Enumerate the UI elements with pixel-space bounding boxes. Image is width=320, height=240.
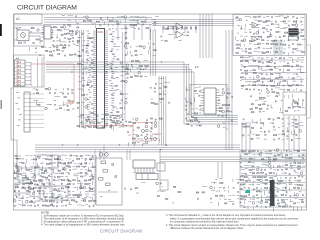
wire W328 xyxy=(214,182,216,185)
resistor R341 xyxy=(45,177,48,178)
value label xyxy=(219,177,222,180)
diode D136 xyxy=(92,174,94,176)
crt socket mark (cyan) xyxy=(246,190,250,193)
wire W129 xyxy=(262,42,265,44)
wire W292 xyxy=(89,197,92,199)
capacitor C282 xyxy=(88,187,90,189)
capacitor C66 xyxy=(190,27,192,30)
wire W118 xyxy=(270,32,272,37)
wire W84 xyxy=(164,81,169,83)
resistor R327 xyxy=(76,166,79,167)
value label xyxy=(301,44,303,47)
U201 right pin 48 xyxy=(105,125,109,127)
capacitor C172 xyxy=(190,125,192,127)
A6 vertical bundle xyxy=(273,40,275,55)
wire W219 xyxy=(113,126,115,130)
value label xyxy=(273,191,275,194)
resistor R359 xyxy=(38,188,41,189)
capacitor C145 xyxy=(125,37,127,39)
transistor Q130 xyxy=(257,75,260,78)
capacitor C142 xyxy=(82,126,84,128)
wire W311 xyxy=(26,183,30,185)
value label xyxy=(155,133,158,136)
wire W209 xyxy=(137,141,140,143)
value label xyxy=(72,108,75,111)
resistor R346 xyxy=(61,180,64,181)
U201 right pin 17 xyxy=(105,62,109,64)
wire W371 xyxy=(282,157,288,159)
capacitor C168 xyxy=(185,105,187,107)
capacitor C339 xyxy=(240,166,242,168)
resistor R326 xyxy=(66,165,69,166)
transistor Q107 xyxy=(143,46,146,49)
J4 row 2 xyxy=(15,67,26,69)
resistor R216 xyxy=(266,43,268,44)
capacitor C360 xyxy=(252,188,254,190)
resistor R135 xyxy=(154,50,157,51)
value label xyxy=(249,23,251,26)
IC column bus wire 3 xyxy=(83,30,85,128)
wire W91 xyxy=(189,98,191,103)
junction node xyxy=(134,144,135,145)
resistor R456 xyxy=(264,177,266,178)
pin net label xyxy=(110,67,113,70)
value label xyxy=(218,102,221,105)
resistor R246 xyxy=(245,73,248,74)
wire W268 xyxy=(80,181,82,185)
resistor R406 xyxy=(268,118,270,119)
junction node xyxy=(82,64,83,65)
resistor R271 xyxy=(251,104,253,105)
capacitor C276 xyxy=(36,184,38,186)
value label xyxy=(38,173,40,176)
resistor R244 xyxy=(270,69,273,70)
capacitor C183 xyxy=(287,16,289,18)
wire W48 xyxy=(91,23,96,25)
transistor Q163 xyxy=(300,172,303,175)
resistor R601 xyxy=(101,161,106,164)
value label xyxy=(136,192,139,195)
capacitor C105 xyxy=(72,37,74,39)
capacitor C338 xyxy=(301,162,303,164)
diode D157 xyxy=(67,179,69,181)
resistor R462 xyxy=(270,181,273,182)
wire W150 xyxy=(258,68,263,70)
resistor R353 xyxy=(26,183,29,184)
wire W57 xyxy=(78,81,81,83)
value label xyxy=(43,186,46,189)
resistor R217 xyxy=(271,44,274,45)
diode D118 xyxy=(280,36,282,38)
wire W361 xyxy=(280,151,282,156)
wire W170 xyxy=(274,80,276,83)
capacitor C234 xyxy=(292,107,294,109)
value label xyxy=(262,47,265,50)
resistor R461 xyxy=(265,180,268,181)
value label xyxy=(278,126,280,129)
value label xyxy=(293,27,295,30)
U301 left pin 2 xyxy=(201,92,205,94)
wire W80 xyxy=(130,68,132,71)
value label xyxy=(121,41,123,44)
wire W323 xyxy=(161,190,165,192)
transistor Q142 xyxy=(91,157,94,160)
wire W25 xyxy=(125,20,127,23)
value label xyxy=(285,180,287,183)
wire W258 xyxy=(74,173,78,175)
resistor R291 xyxy=(129,122,132,123)
vertical wire mid xyxy=(126,150,128,160)
U201 left pin 23 xyxy=(93,74,97,76)
wire W367 xyxy=(289,154,292,156)
capacitor C208 xyxy=(262,62,264,64)
capacitor C243 xyxy=(150,122,152,124)
J4 diode D6 (red) xyxy=(17,80,20,82)
wire W224 xyxy=(61,154,65,156)
resistor R440 xyxy=(278,166,281,167)
junction node xyxy=(132,66,133,67)
resistor R451 xyxy=(241,176,244,177)
junction node xyxy=(106,71,107,72)
value label xyxy=(34,154,36,157)
wire W55 xyxy=(86,72,88,75)
value label xyxy=(91,107,94,110)
resistor R428 xyxy=(245,154,248,155)
value label xyxy=(295,171,297,174)
wire W88 xyxy=(186,89,190,91)
wire W415 xyxy=(249,198,255,200)
wire W71 xyxy=(116,89,119,91)
capacitor C119 xyxy=(141,24,143,26)
wire W277 xyxy=(77,187,79,191)
wire W74 xyxy=(112,106,116,108)
wire W177 xyxy=(295,88,297,91)
capacitor C177 xyxy=(230,111,232,113)
junction node xyxy=(122,66,123,67)
pin net label xyxy=(111,109,114,112)
value label xyxy=(118,117,120,120)
capacitor C136 xyxy=(90,59,92,61)
J4 row 7 xyxy=(15,85,26,87)
diode D130 xyxy=(155,119,157,121)
value label xyxy=(237,24,240,27)
resistor R306 xyxy=(93,127,96,128)
capacitor C255 xyxy=(92,122,94,124)
J4 row 1 xyxy=(15,63,26,65)
wire W169 xyxy=(267,80,273,82)
diode D121 xyxy=(274,62,276,64)
U301 right pin 7 xyxy=(216,105,220,107)
resistor R430 xyxy=(278,154,281,155)
diode D113 xyxy=(140,68,142,70)
pin net label xyxy=(113,55,116,58)
value label xyxy=(277,187,280,190)
vertical wire bl xyxy=(51,155,53,205)
diode D116 xyxy=(199,121,201,123)
routing bus L-1 xyxy=(46,62,238,124)
pin net label xyxy=(113,45,116,48)
capacitor C336 xyxy=(239,162,241,164)
capacitor C295 xyxy=(84,197,86,199)
transistor Q113 xyxy=(124,45,127,48)
capacitor C197 xyxy=(287,40,289,42)
wire W162 xyxy=(244,77,246,80)
U201 right pin 9 xyxy=(105,46,109,48)
resistor R173 xyxy=(160,99,163,100)
value label xyxy=(286,138,288,141)
resistor R242 xyxy=(245,70,248,71)
value label xyxy=(250,16,252,19)
U201 left pin 41 xyxy=(93,111,97,113)
value label xyxy=(40,162,43,165)
resistor R422 xyxy=(202,192,205,193)
lower bus wire 1 xyxy=(35,144,240,146)
resistor R116 xyxy=(57,50,60,51)
resistor R155 xyxy=(121,81,124,82)
U201 left pin 1 xyxy=(93,30,97,32)
value label xyxy=(72,165,75,168)
resistor R203 xyxy=(285,32,288,33)
diode D171 xyxy=(286,150,288,152)
resistor R395 xyxy=(90,189,93,190)
capacitor C283 xyxy=(18,190,20,192)
value label xyxy=(90,175,92,178)
bus drop wire 1 xyxy=(117,25,119,41)
capacitor C247 xyxy=(146,134,148,136)
resistor R385 xyxy=(17,171,19,172)
wire W135 xyxy=(269,52,271,54)
IC right vertical wire 1 xyxy=(122,32,124,120)
wire W425 xyxy=(252,207,254,210)
U201 right pin 18 xyxy=(105,64,109,66)
transistor Q131 xyxy=(277,83,280,86)
wire W220 xyxy=(26,155,29,157)
top bus wire 3 xyxy=(44,21,152,23)
pin net label xyxy=(89,64,91,67)
U201 left pin 39 xyxy=(93,107,97,109)
wire W395 xyxy=(280,177,282,179)
bm link wire 1 xyxy=(217,162,219,178)
pin net label xyxy=(110,62,113,65)
resistor R103 xyxy=(77,27,79,28)
bus drop wire 3 xyxy=(133,25,135,41)
pin net label xyxy=(113,106,116,109)
resistor R211 xyxy=(262,40,264,41)
U201 left pin 46 xyxy=(93,121,97,123)
J4 row 5 xyxy=(15,78,26,80)
resistor R183 xyxy=(199,125,201,126)
value label xyxy=(49,190,51,193)
wire W188 xyxy=(302,102,304,106)
diode D168 xyxy=(287,135,289,137)
U201 right pin 7 xyxy=(105,42,109,44)
value label xyxy=(145,75,148,78)
wire W109 xyxy=(274,23,279,25)
resistor R266 xyxy=(272,92,275,93)
resistor R268 xyxy=(259,97,261,98)
mid vertical bus b1 xyxy=(150,30,152,76)
capacitor C224 xyxy=(257,89,259,91)
bottom right feed wire 1 xyxy=(160,156,306,158)
wire W61 xyxy=(78,116,82,118)
wire W429 xyxy=(296,206,298,211)
pin net label xyxy=(111,75,114,78)
wire W272 xyxy=(77,183,83,185)
pin net label xyxy=(111,97,114,100)
resistor R475 xyxy=(256,191,259,192)
resistor R372 xyxy=(49,201,52,202)
capacitor C272 xyxy=(13,177,15,179)
lower bus wire 2 xyxy=(35,146,240,148)
wire W145 xyxy=(247,61,249,64)
U201 right pin 6 xyxy=(105,40,109,42)
wire W346 xyxy=(291,122,295,124)
resistor R344 xyxy=(34,181,37,182)
wire W280 xyxy=(92,190,95,192)
capacitor C278 xyxy=(72,183,74,185)
right cluster rail 5 xyxy=(241,85,304,87)
resistor R479 xyxy=(281,194,284,195)
wire W221 xyxy=(30,155,33,157)
wire W93 xyxy=(195,108,198,110)
value label xyxy=(15,178,18,181)
wire W386 xyxy=(245,167,248,169)
resistor R262 xyxy=(288,85,291,86)
wire W215 xyxy=(84,122,86,126)
wire W141 xyxy=(266,57,269,59)
value label xyxy=(38,200,40,203)
value label xyxy=(42,193,45,196)
pin net label xyxy=(87,30,89,33)
capacitor C328 xyxy=(273,139,275,141)
U201 right pin 44 xyxy=(105,117,109,119)
A4 vertical wire b xyxy=(41,58,43,88)
resistor R469 xyxy=(298,185,301,186)
red signal wire 3 xyxy=(133,123,152,131)
resistor R124 xyxy=(142,21,145,22)
resistor R196 xyxy=(283,21,286,22)
capacitor C245 xyxy=(149,131,151,133)
value label xyxy=(250,69,252,72)
value label xyxy=(302,169,304,172)
resistor R141 xyxy=(91,37,94,38)
wire W164 xyxy=(270,77,272,82)
br link wire 3 xyxy=(249,122,251,152)
value label xyxy=(292,89,294,92)
resistor R200 xyxy=(263,28,266,29)
bus drop wire r3 xyxy=(184,26,186,33)
wire W263 xyxy=(89,175,95,177)
wire W136 xyxy=(288,53,290,56)
U201 right pin 21 xyxy=(105,70,109,72)
wire W349 xyxy=(299,125,304,127)
value label xyxy=(18,203,21,206)
capacitor C242 xyxy=(146,119,148,121)
wire W368 xyxy=(240,158,244,160)
wire W73 xyxy=(111,97,114,99)
value label xyxy=(76,44,79,47)
svg-text:CIRCUIT DIAGRAM: CIRCUIT DIAGRAM xyxy=(100,229,142,234)
resistor R445 xyxy=(285,169,287,170)
resistor R272 xyxy=(259,104,261,105)
U201 right pin 19 xyxy=(105,66,109,68)
transistor Q126 xyxy=(256,32,259,35)
capacitor C319 xyxy=(242,119,244,121)
U201 left pin 43 xyxy=(93,115,97,117)
wire W175 xyxy=(279,88,285,90)
capacitor C123 xyxy=(160,36,162,38)
IC U1 body xyxy=(44,26,51,39)
value label xyxy=(275,85,277,88)
capacitor C130 xyxy=(34,48,36,50)
capacitor C166 xyxy=(198,95,200,97)
resistor R236 xyxy=(258,61,261,62)
U201 right pin 40 xyxy=(105,109,109,111)
value label xyxy=(142,142,145,145)
wire W182 xyxy=(280,108,282,112)
mid vertical bus b3 xyxy=(155,30,157,76)
wire W285 xyxy=(50,192,53,194)
wire W259 xyxy=(65,175,68,177)
wire W426 xyxy=(260,205,262,207)
resistor R433 xyxy=(249,158,252,159)
br cluster rail 6 xyxy=(241,189,305,191)
value label xyxy=(97,125,99,128)
routing bus L-3 xyxy=(46,67,238,120)
wire W148 xyxy=(260,66,262,69)
resistor R181 xyxy=(195,120,198,121)
diode D124 xyxy=(275,100,277,102)
wire W181 xyxy=(270,105,272,108)
resistor R443 xyxy=(297,166,300,167)
wire W276 xyxy=(54,185,57,187)
capacitor C151 xyxy=(110,94,112,96)
U301 right pin 3 xyxy=(216,94,220,96)
resistor R417 xyxy=(282,134,285,135)
wire W112 xyxy=(244,28,246,31)
value label xyxy=(19,26,21,29)
resistor R392 xyxy=(22,188,25,189)
capacitor C164 xyxy=(168,102,170,104)
value label xyxy=(46,172,48,175)
resistor R115 xyxy=(50,51,52,52)
value label xyxy=(159,82,162,85)
capacitor C161 xyxy=(153,87,155,89)
value label xyxy=(254,48,257,51)
value label xyxy=(222,122,225,125)
value label xyxy=(240,79,242,82)
wire W119 xyxy=(291,33,293,38)
wire W28 xyxy=(136,20,138,24)
transistor Q154 xyxy=(156,182,159,185)
capacitor C153 xyxy=(125,98,127,100)
wire W299 xyxy=(81,200,86,202)
transistor Q3 xyxy=(176,31,183,38)
wire W225 xyxy=(73,155,77,157)
pin net label xyxy=(86,49,88,52)
resistor R177 xyxy=(194,113,197,114)
capacitor C163 xyxy=(153,91,155,93)
wire W227 xyxy=(19,158,24,160)
capacitor C165 xyxy=(199,90,201,92)
wire W238 xyxy=(78,163,82,165)
wire W250 xyxy=(52,169,54,174)
wire W232 xyxy=(14,163,16,165)
transistor Q602 xyxy=(105,153,109,157)
capacitor C244 xyxy=(127,131,129,133)
resistor R237 xyxy=(267,62,270,63)
wire W348 xyxy=(292,125,295,127)
